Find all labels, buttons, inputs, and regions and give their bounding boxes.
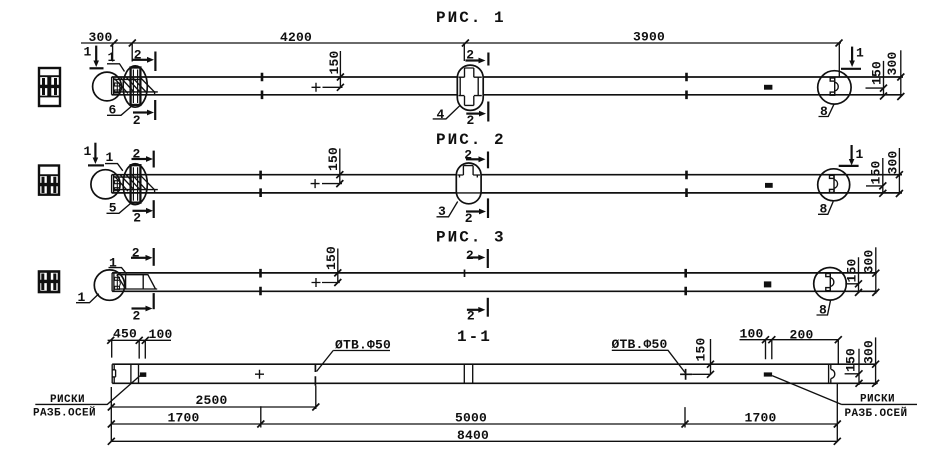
svg-text:150: 150 — [869, 160, 884, 184]
end circle right fig2 — [818, 169, 850, 201]
hole axis extension left — [315, 386, 317, 409]
label 1 top fig3 — [109, 256, 127, 274]
svg-text:3900: 3900 — [633, 30, 665, 45]
beam right end — [829, 364, 831, 383]
dim 150 right fig2 — [866, 158, 886, 197]
small mark at x464 fig3 — [464, 270, 466, 278]
right end arc — [831, 369, 835, 378]
section mark 2 bottom-center fig1 — [466, 102, 488, 129]
label 1 joint fig2 — [105, 150, 123, 171]
plus mark fig3 — [312, 278, 321, 287]
beam bottom line fig2 — [112, 192, 902, 194]
section mark 2 top-left fig2 — [132, 147, 154, 168]
svg-text:2: 2 — [133, 113, 141, 128]
tick at x839 — [836, 40, 843, 47]
beam left end — [112, 364, 114, 383]
beam bottom line fig1 — [112, 94, 903, 96]
svg-text:150: 150 — [327, 50, 342, 74]
svg-text:1: 1 — [856, 46, 864, 61]
svg-text:РИС. 3: РИС. 3 — [436, 229, 506, 247]
left column section symbol fig1 — [39, 68, 60, 106]
beam end bracket fig2 — [115, 181, 120, 191]
column body fig2 — [131, 165, 141, 202]
left end notch — [112, 370, 115, 377]
beam end plate lines fig2 — [114, 177, 158, 190]
svg-text:2500: 2500 — [196, 393, 228, 408]
section mark 1 left fig1 — [84, 45, 104, 69]
joint ellipse left fig1 — [123, 66, 147, 107]
svg-text:2: 2 — [467, 113, 475, 128]
beam top line section — [112, 363, 876, 365]
corbel plan fig3 — [117, 275, 157, 289]
dim 150 right fig3 — [844, 257, 862, 296]
embedded plate mark fig1 — [764, 85, 772, 90]
axis mark at x686 fig1 — [686, 73, 688, 99]
dim 150 fig2 — [322, 147, 343, 187]
hole plus mark right — [680, 369, 692, 380]
plus mark fig2 — [311, 179, 320, 188]
dim 150 hole right — [692, 337, 714, 377]
beam bottom line section — [112, 382, 878, 384]
svg-text:РИСКИ: РИСКИ — [860, 393, 895, 405]
svg-text:5000: 5000 — [455, 411, 487, 426]
svg-text:1700: 1700 — [745, 411, 777, 426]
svg-text:РАЗБ.ОСЕЙ: РАЗБ.ОСЕЙ — [33, 406, 96, 420]
dim 150 right fig1 — [866, 61, 888, 100]
end circle right fig3 — [814, 268, 847, 301]
plus mark fig1 — [312, 83, 321, 92]
label 4 fig1 — [433, 105, 461, 122]
column body fig1 — [131, 68, 141, 105]
svg-text:1: 1 — [84, 45, 92, 60]
joint circle left fig1 — [93, 72, 122, 101]
svg-text:1: 1 — [106, 150, 114, 165]
beam end edge fig3 — [112, 273, 114, 291]
svg-text:4: 4 — [437, 107, 445, 122]
beam end bracket fig1 — [115, 83, 120, 93]
svg-text:150: 150 — [869, 61, 884, 85]
section mark 1 left fig2 — [84, 143, 105, 166]
label РИСКИ РАЗБ.ОСЕЙ left — [33, 376, 140, 420]
extension left bottom — [110, 387, 112, 441]
section mark 2 top-center fig3 — [466, 248, 488, 268]
section mark 2 bottom-center fig3 — [467, 298, 488, 324]
section mark 2 top-left fig1 — [132, 43, 155, 71]
svg-text:450: 450 — [113, 327, 137, 342]
section mark 2 bottom-center fig2 — [465, 198, 488, 226]
svg-text:1-1: 1-1 — [457, 328, 492, 346]
svg-text:100: 100 — [149, 327, 173, 342]
dim 150 fig3 — [322, 246, 341, 286]
axis mark at x686 fig3 — [685, 269, 687, 295]
svg-text:150: 150 — [844, 258, 859, 282]
beam top line fig3 — [112, 272, 877, 274]
svg-text:150: 150 — [694, 337, 709, 361]
corbel fig2 — [140, 175, 154, 193]
hatch fig2 — [115, 175, 147, 191]
joint obround center fig2 — [456, 163, 481, 204]
end bracket right fig1 — [830, 78, 838, 96]
dim line 100/200 right — [740, 326, 842, 364]
svg-text:200: 200 — [790, 327, 814, 342]
svg-text:150: 150 — [843, 348, 858, 372]
extension right bottom — [836, 383, 838, 441]
label 8 fig3 — [817, 301, 831, 318]
svg-text:300: 300 — [861, 249, 876, 273]
dim 300 right section — [861, 337, 879, 386]
end bracket right fig2 — [830, 175, 838, 193]
section mark 1 right fig2 — [839, 145, 864, 166]
plus mark section — [255, 370, 264, 379]
joint lines center section — [464, 364, 472, 383]
label 8 fig1 — [819, 104, 835, 119]
left column section symbol fig3 — [39, 272, 59, 293]
embedded plate mark fig3 — [764, 281, 771, 287]
label 1 bottom fig3 — [76, 290, 99, 305]
svg-text:1: 1 — [108, 50, 116, 65]
tick at x465 — [462, 40, 469, 47]
beam top line fig2 — [112, 174, 902, 176]
axis mark at x261 fig2 — [260, 171, 262, 197]
section mark 2 top-center fig1 — [464, 43, 488, 66]
dim 2500 — [108, 393, 319, 411]
label 5 fig2 — [107, 201, 131, 216]
svg-text:2: 2 — [133, 211, 141, 226]
section mark 1 right fig1 — [841, 46, 864, 69]
beam bottom line fig3 — [112, 290, 878, 292]
svg-text:РАЗБ.ОСЕЙ: РАЗБ.ОСЕЙ — [845, 406, 908, 420]
hole marks left section — [314, 364, 316, 386]
dim 150 right section — [843, 348, 862, 387]
svg-text:300: 300 — [885, 51, 900, 75]
beam end plate lines fig1 — [114, 79, 158, 92]
svg-text:300: 300 — [861, 340, 876, 364]
dim 300 right fig3 — [861, 247, 879, 296]
svg-text:150: 150 — [326, 147, 341, 171]
end circle right fig1 — [818, 71, 851, 104]
tick at x132 — [129, 40, 136, 47]
svg-text:РИС. 2: РИС. 2 — [436, 131, 506, 149]
left column section symbol fig2 — [39, 166, 59, 195]
svg-text:300: 300 — [89, 30, 113, 45]
inner line x138.5 — [138, 364, 140, 383]
svg-text:1: 1 — [84, 144, 92, 159]
embedded plate mark fig2 — [765, 183, 773, 188]
axis mark at x260 fig3 — [260, 269, 262, 295]
svg-text:РИС. 1: РИС. 1 — [436, 9, 506, 27]
svg-text:2: 2 — [133, 309, 141, 324]
dim line 450/100 left — [107, 327, 172, 359]
svg-text:1700: 1700 — [168, 411, 200, 426]
svg-text:4200: 4200 — [280, 30, 312, 45]
svg-text:100: 100 — [740, 326, 764, 341]
extension line x112.6 — [112, 45, 114, 61]
label РИСКИ РАЗБ.ОСЕЙ right — [772, 376, 917, 420]
extension line x839 — [838, 43, 840, 77]
axis plate mark right section — [764, 372, 772, 376]
dim 300 right fig2 — [886, 148, 903, 197]
beam end edge fig2 — [112, 175, 114, 193]
dim 1700 left / 5000 — [108, 406, 841, 427]
joint ellipse left fig2 — [123, 164, 147, 205]
dimension line top fig1 — [81, 42, 841, 44]
section mark 2 bottom-left fig3 — [132, 293, 154, 323]
svg-text:150: 150 — [324, 246, 339, 270]
label ØТВ.Ф50 right — [612, 337, 686, 373]
label ØТВ.Ф50 left — [317, 337, 392, 371]
section mark 2 bottom-left fig2 — [133, 200, 154, 225]
label 1 joint fig1 — [107, 50, 125, 72]
svg-text:2: 2 — [466, 248, 474, 263]
axis plate mark left section — [140, 372, 146, 377]
beam top line fig1 — [112, 76, 903, 78]
beam end bracket fig3 — [115, 277, 121, 289]
dim 300 right fig1 — [885, 50, 904, 100]
end bracket right fig3 — [826, 273, 834, 291]
tick at x114 — [111, 40, 118, 47]
section mark 2 top-left fig3 — [131, 246, 154, 266]
dim 150 fig1 — [323, 50, 344, 90]
beam end edge fig1 — [112, 77, 114, 95]
dim 8400 — [108, 428, 841, 445]
svg-text:1: 1 — [856, 147, 864, 162]
inner line x131 — [130, 364, 132, 383]
section mark 2 top-center fig2 — [464, 148, 488, 169]
svg-text:2: 2 — [465, 211, 473, 226]
joint circle left fig2 — [91, 170, 120, 199]
hatch fig1 — [115, 78, 147, 94]
joint obround center fig1 — [457, 65, 483, 110]
joint circle left fig3 — [94, 270, 124, 300]
svg-text:8400: 8400 — [457, 428, 489, 443]
label 6 fig1 — [107, 103, 132, 118]
corbel fig1 — [140, 78, 154, 95]
label 3 fig2 — [437, 202, 458, 220]
label 8 fig2 — [818, 202, 833, 217]
svg-text:300: 300 — [886, 150, 901, 174]
axis mark at x262 fig1 — [261, 73, 263, 99]
section mark 2 bottom-left fig1 — [133, 100, 155, 128]
axis mark at x686 fig2 — [686, 171, 688, 197]
